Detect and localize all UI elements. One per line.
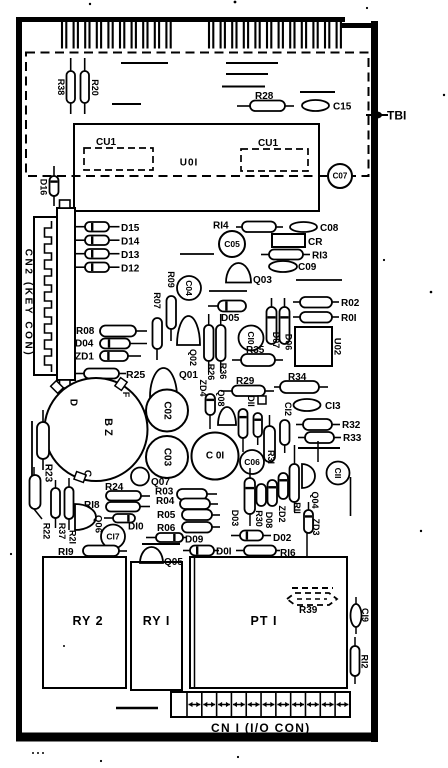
svg-text:R08: R08 (76, 326, 95, 337)
svg-text:CI0: CI0 (246, 331, 256, 345)
svg-text:R09: R09 (166, 271, 176, 288)
svg-text:R0I: R0I (341, 313, 357, 324)
svg-text:D09: D09 (185, 535, 204, 546)
svg-text:C 0I: C 0I (206, 451, 225, 462)
svg-text:R07: R07 (152, 292, 162, 309)
svg-text:RI4: RI4 (213, 221, 229, 232)
svg-text:D0I: D0I (216, 547, 232, 558)
svg-text:ZD1: ZD1 (75, 352, 94, 363)
svg-text:R39: R39 (299, 605, 318, 616)
svg-text:Q03: Q03 (253, 275, 272, 286)
svg-text:R05: R05 (157, 510, 176, 521)
svg-text:D14: D14 (121, 237, 140, 248)
svg-text:R22: R22 (42, 523, 52, 540)
svg-text:CI3: CI3 (325, 401, 341, 412)
svg-text:R37: R37 (57, 523, 67, 540)
svg-text:Q04: Q04 (310, 491, 320, 508)
svg-text:U02: U02 (332, 338, 343, 355)
svg-text:D13: D13 (121, 250, 140, 261)
svg-text:Q02: Q02 (188, 349, 198, 366)
svg-text:R30: R30 (254, 510, 264, 527)
svg-text:C09: C09 (298, 262, 317, 273)
svg-text:C08: C08 (320, 223, 339, 234)
svg-text:C03: C03 (162, 448, 173, 467)
svg-text:D04: D04 (75, 339, 94, 350)
svg-text:ZD3: ZD3 (311, 518, 321, 535)
svg-text:R04: R04 (156, 496, 175, 507)
svg-text:Q08: Q08 (216, 389, 226, 406)
svg-text:CI2: CI2 (283, 402, 293, 416)
svg-text:D06: D06 (284, 334, 294, 351)
svg-text:RI2: RI2 (360, 654, 370, 668)
svg-text:D05: D05 (221, 313, 240, 324)
svg-text:C02: C02 (162, 401, 173, 420)
svg-text:D03: D03 (230, 510, 240, 527)
svg-text:CI7: CI7 (106, 532, 120, 542)
svg-text:DII: DII (246, 395, 256, 407)
svg-text:R38: R38 (56, 79, 66, 96)
svg-text:R28: R28 (255, 91, 274, 102)
svg-text:U0I: U0I (180, 158, 199, 169)
svg-text:R32: R32 (342, 420, 361, 431)
svg-text:R20: R20 (90, 79, 100, 96)
svg-text:R35: R35 (246, 345, 265, 356)
svg-text:RI3: RI3 (312, 251, 328, 262)
svg-text:RY I: RY I (143, 614, 171, 628)
svg-text:C04: C04 (184, 280, 194, 296)
svg-text:CU1: CU1 (96, 137, 116, 148)
svg-text:C05: C05 (224, 239, 240, 249)
svg-text:CR: CR (308, 237, 323, 248)
svg-text:R3I: R3I (266, 450, 276, 464)
svg-text:CU1: CU1 (258, 138, 278, 149)
svg-text:RII: RII (292, 502, 302, 514)
svg-text:D12: D12 (121, 264, 140, 275)
svg-text:CII: CII (333, 468, 343, 479)
svg-text:R34: R34 (288, 372, 307, 383)
svg-text:ZD4: ZD4 (198, 379, 208, 396)
svg-text:F: F (121, 392, 131, 398)
svg-text:D: D (68, 399, 79, 406)
svg-text:BZ: BZ (102, 418, 114, 439)
svg-text:DI0: DI0 (128, 522, 144, 533)
svg-text:R36: R36 (218, 363, 228, 380)
svg-text:R29: R29 (236, 376, 255, 387)
svg-text:D02: D02 (273, 533, 292, 544)
svg-text:D16: D16 (39, 179, 49, 196)
svg-text:R25: R25 (126, 369, 145, 381)
svg-text:CN2 (KEY CON): CN2 (KEY CON) (23, 249, 34, 358)
svg-text:CI9: CI9 (360, 608, 370, 622)
svg-text:TBI: TBI (387, 109, 406, 123)
svg-text:D15: D15 (121, 223, 140, 234)
svg-text:ZD2: ZD2 (277, 505, 287, 522)
svg-text:PT I: PT I (251, 614, 278, 628)
svg-text:R23: R23 (43, 464, 54, 483)
svg-text:R26: R26 (206, 364, 216, 381)
svg-text:C: C (82, 470, 93, 477)
svg-text:D08: D08 (264, 512, 274, 529)
svg-text:C06: C06 (244, 457, 260, 467)
svg-text:CN I (I/O CON): CN I (I/O CON) (211, 721, 311, 735)
svg-text:RY 2: RY 2 (72, 614, 103, 628)
svg-text:R33: R33 (343, 433, 362, 444)
svg-text:R02: R02 (341, 298, 360, 309)
svg-text:Q01: Q01 (179, 370, 198, 381)
svg-text:C07: C07 (333, 172, 348, 181)
svg-text:R2I: R2I (68, 530, 78, 544)
svg-text:C15: C15 (333, 102, 352, 113)
